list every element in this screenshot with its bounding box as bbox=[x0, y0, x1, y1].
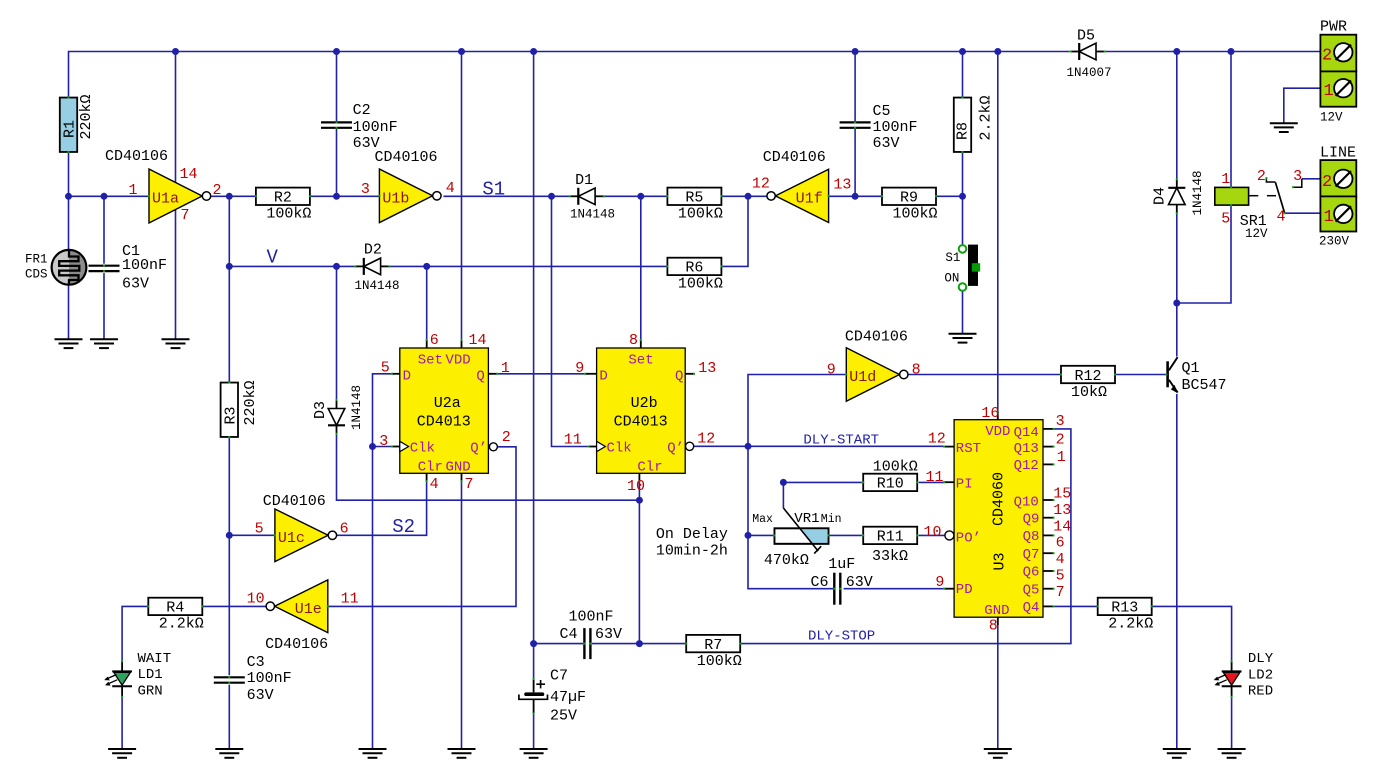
svg-text:9: 9 bbox=[935, 574, 944, 591]
ground C1 bbox=[90, 338, 118, 340]
relay SR1 coil bbox=[1215, 187, 1249, 205]
svg-text:VDD: VDD bbox=[985, 424, 1010, 440]
wire U1f output to R9 bbox=[829, 195, 883, 197]
wire LD1 cathode to ground bbox=[121, 697, 123, 749]
svg-text:GRN: GRN bbox=[138, 684, 163, 700]
svg-text:12V: 12V bbox=[1320, 111, 1343, 125]
wire C7 bottom to ground bbox=[533, 714, 535, 750]
wire D4 bottom to Q1 collector bbox=[1176, 213, 1178, 356]
svg-text:8: 8 bbox=[989, 618, 998, 635]
svg-text:U2a: U2a bbox=[434, 395, 461, 412]
wire U3 VDD pin16 vertical from rail bbox=[997, 52, 999, 412]
wire U2a Clk node to ground bbox=[372, 447, 374, 750]
svg-text:Q’: Q’ bbox=[470, 441, 487, 457]
ground PWR pin1 bbox=[1270, 122, 1298, 124]
svg-text:1: 1 bbox=[1324, 208, 1334, 227]
svg-text:11: 11 bbox=[341, 591, 359, 608]
wire U1d output to R12 bbox=[908, 374, 1062, 376]
svg-text:R7: R7 bbox=[704, 637, 722, 654]
svg-text:8: 8 bbox=[629, 332, 638, 349]
svg-text:100nF: 100nF bbox=[873, 119, 918, 136]
svg-text:1: 1 bbox=[129, 182, 138, 199]
wire R11 to U3 PO' bbox=[919, 534, 945, 536]
wire R12 to Q1 base bbox=[1116, 374, 1167, 376]
wire C2 bottom to U1b input node bbox=[336, 128, 338, 197]
ground LD1 bbox=[108, 748, 136, 750]
svg-text:7: 7 bbox=[465, 476, 474, 493]
wire U2b Set feeder from net S1 down bbox=[640, 196, 642, 340]
wire U1e output to R4 bbox=[202, 605, 266, 607]
svg-text:1N4148: 1N4148 bbox=[570, 208, 615, 222]
junction dot U1c input bbox=[226, 532, 233, 539]
svg-text:R8: R8 bbox=[955, 122, 972, 140]
wire net DLY-STOP: C4 left bbox=[534, 643, 583, 645]
resistor R12 10k bbox=[1061, 366, 1115, 383]
wire R4 to LD1 bbox=[122, 606, 148, 661]
svg-text:C7: C7 bbox=[550, 668, 568, 685]
svg-text:63V: 63V bbox=[122, 276, 149, 293]
svg-text:1: 1 bbox=[1324, 82, 1334, 101]
wire VR1 left terminal bbox=[748, 534, 774, 536]
relay SR1 contact bbox=[1266, 178, 1275, 182]
resistor R11 33k bbox=[863, 527, 917, 544]
wire U1a input row bbox=[69, 195, 150, 197]
wire U2b Clk feeder from net S1 down bbox=[552, 196, 589, 446]
junction dot VR1 wiper / R10 bbox=[780, 479, 787, 486]
pushbutton S1 ON bbox=[959, 245, 967, 253]
svg-text:12: 12 bbox=[752, 176, 770, 193]
wire U2a Set pin6 from V row bbox=[426, 266, 428, 340]
wire C4/C7 feeder vertical from rail bbox=[533, 52, 535, 644]
svg-text:63V: 63V bbox=[595, 626, 622, 643]
svg-text:Set: Set bbox=[418, 352, 443, 368]
counter U3 CD4060 bbox=[954, 420, 1043, 618]
resistor R6 100k bbox=[667, 258, 721, 275]
inverter U1a CD40106 bbox=[149, 169, 202, 223]
svg-text:D4: D4 bbox=[1152, 187, 1169, 205]
svg-text:D: D bbox=[403, 368, 411, 384]
svg-text:Q12: Q12 bbox=[1014, 458, 1039, 474]
svg-text:U1e: U1e bbox=[295, 601, 322, 618]
svg-text:3: 3 bbox=[379, 433, 388, 450]
svg-text:4: 4 bbox=[1056, 551, 1065, 568]
svg-text:5: 5 bbox=[1056, 568, 1065, 585]
svg-text:DLY-START: DLY-START bbox=[803, 433, 879, 449]
svg-text:R1: R1 bbox=[62, 120, 79, 138]
junction dot U2b Clr bbox=[636, 497, 643, 504]
svg-text:11: 11 bbox=[564, 432, 582, 449]
svg-text:12: 12 bbox=[697, 431, 715, 448]
svg-text:Set: Set bbox=[628, 352, 653, 368]
svg-text:Clk: Clk bbox=[410, 441, 435, 457]
svg-text:12: 12 bbox=[928, 431, 946, 448]
svg-text:11: 11 bbox=[926, 469, 944, 486]
LED LD1 green WAIT bbox=[121, 661, 123, 671]
svg-text:4: 4 bbox=[1277, 209, 1286, 226]
wire U1a output to R2 bbox=[211, 195, 257, 197]
svg-text:63V: 63V bbox=[873, 135, 900, 152]
svg-text:S1: S1 bbox=[482, 179, 505, 201]
svg-text:15: 15 bbox=[1053, 486, 1071, 503]
svg-text:220kΩ: 220kΩ bbox=[78, 94, 95, 139]
svg-text:25V: 25V bbox=[550, 708, 577, 725]
svg-text:RED: RED bbox=[1248, 684, 1273, 700]
resistor R5 100k bbox=[667, 188, 721, 205]
wire R3 bottom through U1c node to C3 bbox=[228, 436, 230, 675]
svg-text:Q10: Q10 bbox=[1014, 495, 1039, 511]
wire C1 top bbox=[103, 196, 105, 263]
svg-text:63V: 63V bbox=[846, 574, 873, 591]
ground Q1 emitter bbox=[1163, 748, 1191, 750]
svg-text:CD40106: CD40106 bbox=[263, 493, 326, 510]
svg-text:Q6: Q6 bbox=[1023, 565, 1040, 581]
svg-text:U1b: U1b bbox=[382, 190, 409, 207]
wire C5 vertical top bbox=[854, 52, 856, 123]
svg-text:V: V bbox=[267, 247, 279, 269]
wire VR1 right to R11 bbox=[829, 534, 862, 536]
LDR FR1 CDS photoresistor bbox=[52, 250, 87, 285]
wire relay coil bottom to collector node bbox=[1177, 205, 1231, 303]
svg-text:5: 5 bbox=[1221, 211, 1230, 228]
resistor R4 2.2k bbox=[148, 598, 202, 615]
svg-text:R10: R10 bbox=[877, 476, 904, 493]
svg-text:10: 10 bbox=[924, 524, 942, 541]
capacitor C7 47uF electrolytic bbox=[533, 679, 535, 692]
resistor R10 100k bbox=[863, 474, 917, 491]
capacitor C3 100nF bbox=[214, 676, 245, 678]
capacitor C5 100nF bbox=[840, 121, 871, 123]
diode D5 1N4007 bbox=[1071, 51, 1080, 53]
svg-text:6: 6 bbox=[340, 521, 349, 538]
svg-text:2.2kΩ: 2.2kΩ bbox=[1108, 616, 1153, 633]
svg-text:Q14: Q14 bbox=[1014, 425, 1039, 441]
wire +12V top rail right segment (after D5) bbox=[1106, 51, 1321, 53]
wire VR1/C6 feeder vertical bbox=[748, 446, 833, 588]
wire U1c input from R3 node bbox=[229, 534, 275, 536]
svg-text:1N4148: 1N4148 bbox=[355, 279, 400, 293]
wire R6 right up to U1f input node bbox=[722, 196, 748, 266]
svg-text:10: 10 bbox=[247, 591, 265, 608]
wire LINE pin2 from relay contact 3 bbox=[1302, 178, 1321, 180]
ground U3 pin8 bbox=[984, 748, 1012, 750]
svg-text:Q9: Q9 bbox=[1023, 512, 1040, 528]
svg-text:CD4060: CD4060 bbox=[991, 472, 1008, 526]
svg-text:DLY: DLY bbox=[1248, 651, 1274, 667]
ground S1 bbox=[949, 333, 977, 335]
svg-text:10: 10 bbox=[627, 478, 645, 495]
diode D1 1N4148 bbox=[570, 195, 579, 197]
wire U2a D-Clk tie bbox=[373, 374, 392, 447]
svg-text:WAIT: WAIT bbox=[138, 651, 172, 667]
svg-text:Q8: Q8 bbox=[1023, 529, 1040, 545]
svg-text:C2: C2 bbox=[353, 102, 371, 119]
wire C3 bottom to ground bbox=[228, 685, 230, 749]
svg-text:14: 14 bbox=[469, 332, 487, 349]
svg-text:S2: S2 bbox=[392, 516, 415, 538]
svg-text:100nF: 100nF bbox=[122, 257, 167, 274]
svg-text:33kΩ: 33kΩ bbox=[872, 548, 908, 565]
svg-text:D3: D3 bbox=[312, 401, 329, 419]
junction dots S1 row bbox=[65, 193, 72, 200]
svg-text:ON: ON bbox=[944, 272, 959, 286]
svg-text:10min-2h: 10min-2h bbox=[656, 543, 728, 560]
capacitor C1 100nF bbox=[89, 265, 120, 267]
svg-text:5: 5 bbox=[381, 360, 390, 377]
svg-text:230V: 230V bbox=[1319, 235, 1350, 249]
resistor R2 100k bbox=[256, 188, 310, 205]
svg-text:RST: RST bbox=[956, 441, 981, 457]
wire net DLY-START: U2b Q' to U3 RST bbox=[694, 445, 944, 447]
junction dot relay feed bbox=[1173, 300, 1180, 307]
svg-text:1N4007: 1N4007 bbox=[1067, 66, 1112, 80]
svg-text:U2b: U2b bbox=[631, 395, 658, 412]
svg-text:13: 13 bbox=[698, 360, 716, 377]
svg-text:LD1: LD1 bbox=[138, 667, 163, 683]
resistor R7 100k bbox=[686, 635, 740, 652]
svg-text:100kΩ: 100kΩ bbox=[678, 206, 723, 223]
svg-text:Q: Q bbox=[476, 368, 484, 384]
svg-text:470kΩ: 470kΩ bbox=[764, 552, 809, 569]
svg-text:DLY-STOP: DLY-STOP bbox=[808, 628, 875, 644]
svg-text:220kΩ: 220kΩ bbox=[242, 380, 259, 425]
wire D4 top from rail bbox=[1176, 52, 1178, 180]
svg-text:VR1: VR1 bbox=[794, 511, 819, 527]
wire U1a pin7 to ground bbox=[175, 210, 177, 339]
wire R2 to U1b input bbox=[309, 195, 379, 197]
svg-text:CD40106: CD40106 bbox=[105, 148, 168, 165]
svg-text:100kΩ: 100kΩ bbox=[892, 206, 937, 223]
svg-text:PI: PI bbox=[956, 477, 973, 493]
wire R10 right to U3 PI bbox=[919, 481, 945, 483]
wire VR1 wiper stub bbox=[782, 482, 784, 508]
svg-text:1uF: 1uF bbox=[828, 556, 855, 573]
svg-text:Min: Min bbox=[821, 513, 842, 526]
resistor R3 220k bbox=[221, 383, 238, 437]
wire FR1 bottom to ground bbox=[68, 285, 70, 340]
svg-text:2.2kΩ: 2.2kΩ bbox=[978, 95, 995, 140]
inverter U1c CD40106 bbox=[275, 509, 328, 562]
svg-text:Q13: Q13 bbox=[1014, 441, 1039, 457]
svg-text:D1: D1 bbox=[575, 172, 593, 189]
svg-text:4: 4 bbox=[446, 180, 455, 197]
LED LD2 red DLY bbox=[1231, 661, 1233, 671]
inverter U1b CD40106 bbox=[379, 169, 432, 223]
svg-text:CD40106: CD40106 bbox=[845, 329, 908, 346]
wire net S2: U1c output to U2a Clr bbox=[336, 481, 426, 535]
svg-text:U1a: U1a bbox=[152, 191, 179, 208]
resistor R13 2.2k bbox=[1098, 598, 1152, 615]
svg-text:14: 14 bbox=[1053, 519, 1071, 536]
wire D3 bottom to U2b Clr row bbox=[337, 434, 640, 500]
svg-text:Q: Q bbox=[675, 368, 683, 384]
svg-text:C6: C6 bbox=[810, 574, 828, 591]
svg-text:D2: D2 bbox=[364, 241, 382, 258]
wire D3 top from V row bbox=[336, 266, 338, 399]
svg-text:Clk: Clk bbox=[607, 441, 632, 457]
svg-text:BC547: BC547 bbox=[1182, 377, 1227, 394]
wire relay coil top to rail bbox=[1230, 52, 1232, 188]
wire R8 bottom to S1 switch bbox=[962, 152, 964, 245]
svg-text:LD2: LD2 bbox=[1248, 668, 1273, 684]
junction dot U2a Clk bbox=[369, 443, 376, 450]
svg-text:13: 13 bbox=[833, 177, 851, 194]
svg-text:CD4013: CD4013 bbox=[614, 414, 668, 431]
svg-text:100kΩ: 100kΩ bbox=[678, 276, 723, 293]
wire U1a pin14 to rail bbox=[175, 52, 177, 184]
svg-text:R11: R11 bbox=[877, 529, 904, 546]
svg-text:1: 1 bbox=[501, 360, 510, 377]
wire U2a GND pin7 to ground bbox=[461, 481, 463, 749]
wire C2 vertical top bbox=[336, 52, 338, 123]
svg-text:100kΩ: 100kΩ bbox=[266, 206, 311, 223]
capacitor C6 1uF bbox=[833, 573, 835, 605]
svg-text:D: D bbox=[599, 368, 607, 384]
wire U2a Q to U2b D bbox=[497, 373, 585, 375]
svg-text:3: 3 bbox=[1293, 168, 1302, 185]
svg-text:Q5: Q5 bbox=[1023, 583, 1040, 599]
wire PWR pin1 to ground bbox=[1284, 88, 1321, 123]
svg-text:2: 2 bbox=[1322, 46, 1332, 65]
svg-text:9: 9 bbox=[827, 361, 836, 378]
svg-text:100nF: 100nF bbox=[568, 609, 613, 626]
wire net DLY-STOP: R7 to U3 Q14 bbox=[741, 429, 1071, 644]
svg-text:LINE: LINE bbox=[1320, 145, 1356, 162]
wire net V row bbox=[229, 265, 355, 267]
diode D2 1N4148 bbox=[355, 265, 364, 267]
svg-text:PWR: PWR bbox=[1320, 19, 1347, 36]
svg-text:GND: GND bbox=[446, 459, 471, 475]
svg-text:CD40106: CD40106 bbox=[375, 149, 438, 166]
junction dot DLY-START / U1d input bbox=[745, 443, 752, 450]
svg-text:1: 1 bbox=[1221, 171, 1230, 188]
wire R10 left to VR1 wiper node bbox=[783, 481, 862, 483]
svg-text:Q’: Q’ bbox=[667, 441, 684, 457]
resistor R8 2.2k bbox=[954, 98, 971, 152]
svg-text:7: 7 bbox=[181, 207, 190, 224]
wire U1d input from DLY-START bbox=[748, 375, 846, 447]
potentiometer VR1 470k bbox=[774, 528, 828, 544]
svg-text:R12: R12 bbox=[1074, 368, 1101, 385]
svg-text:3: 3 bbox=[1056, 413, 1065, 430]
capacitor C4 100nF bbox=[583, 628, 585, 659]
junction dot DLY-STOP row bbox=[530, 640, 537, 647]
svg-text:U1f: U1f bbox=[796, 191, 823, 208]
flip-flop U2b CD4013 bbox=[597, 348, 686, 473]
wire LD2 cathode to ground bbox=[1231, 697, 1233, 749]
svg-text:5: 5 bbox=[255, 521, 264, 538]
svg-text:Max: Max bbox=[752, 513, 773, 526]
svg-text:8: 8 bbox=[912, 361, 921, 378]
svg-text:R2: R2 bbox=[274, 190, 292, 207]
svg-text:6: 6 bbox=[430, 332, 439, 349]
ground C3 bbox=[215, 748, 243, 750]
inverter U1f CD40106 bbox=[775, 169, 828, 222]
ground U1a pin7 bbox=[162, 338, 190, 340]
svg-text:14: 14 bbox=[180, 166, 198, 183]
svg-text:U1d: U1d bbox=[849, 369, 876, 386]
svg-text:9: 9 bbox=[575, 360, 584, 377]
inverter U1e CD40106 bbox=[275, 580, 328, 633]
svg-text:R5: R5 bbox=[685, 190, 703, 207]
svg-text:PD: PD bbox=[956, 582, 973, 598]
diode D4 1N4148 bbox=[1176, 179, 1178, 188]
ground LD2 bbox=[1218, 748, 1246, 750]
svg-text:On Delay: On Delay bbox=[656, 526, 728, 543]
svg-text:13: 13 bbox=[1053, 502, 1071, 519]
svg-text:S1: S1 bbox=[945, 251, 960, 265]
wire LINE pin1 from relay contact 4 bbox=[1285, 212, 1321, 214]
wire R9 to R8 node bbox=[936, 195, 963, 197]
svg-text:100kΩ: 100kΩ bbox=[873, 458, 918, 475]
wire U2a Q' to U1e input bbox=[328, 447, 516, 607]
svg-text:1N4148: 1N4148 bbox=[1191, 170, 1205, 215]
wire +12V top rail left segment bbox=[69, 52, 1070, 98]
resistor R1 220k (LDR divider) bbox=[60, 98, 77, 152]
diode D3 1N4148 bbox=[336, 400, 338, 409]
wire S1 switch to ground bbox=[962, 291, 964, 334]
terminal block LINE bbox=[1320, 160, 1356, 196]
svg-text:U1c: U1c bbox=[278, 530, 305, 547]
terminal block PWR bbox=[1320, 35, 1356, 72]
svg-text:CD40106: CD40106 bbox=[265, 636, 328, 653]
svg-text:R9: R9 bbox=[900, 190, 918, 207]
svg-text:2.2kΩ: 2.2kΩ bbox=[159, 616, 204, 633]
resistor R9 100k bbox=[882, 188, 936, 205]
wire net S1: R5 to U1f input bbox=[722, 195, 767, 197]
svg-text:63V: 63V bbox=[247, 687, 274, 704]
transistor Q1 BC547 bbox=[1166, 361, 1169, 387]
svg-text:2: 2 bbox=[213, 182, 222, 199]
svg-text:100kΩ: 100kΩ bbox=[697, 653, 742, 670]
wire net S1: D1 to R5 bbox=[604, 195, 667, 197]
svg-text:7: 7 bbox=[1056, 584, 1065, 601]
wire C6 right to U3 PD bbox=[844, 588, 945, 590]
svg-text:FR1: FR1 bbox=[25, 253, 48, 267]
svg-text:U3: U3 bbox=[992, 552, 1009, 570]
svg-text:Q7: Q7 bbox=[1023, 547, 1040, 563]
svg-text:R3: R3 bbox=[223, 406, 240, 424]
wire net DLY-STOP: C4 right to R7 bbox=[592, 643, 686, 645]
svg-text:6: 6 bbox=[1056, 535, 1065, 552]
ground FR1 bbox=[55, 338, 83, 340]
wire U2b Clr stub down / to DLY-STOP row bbox=[638, 481, 640, 643]
svg-text:12V: 12V bbox=[1245, 227, 1268, 241]
svg-text:PO’: PO’ bbox=[956, 531, 981, 547]
svg-text:100nF: 100nF bbox=[353, 119, 398, 136]
svg-text:CDS: CDS bbox=[25, 268, 48, 282]
wire rail to R8 top bbox=[962, 52, 964, 98]
wire R1 bottom to FR1 bbox=[68, 152, 70, 250]
svg-text:R6: R6 bbox=[685, 260, 703, 277]
svg-text:16: 16 bbox=[981, 405, 999, 422]
junction dot VR1 left bbox=[745, 532, 752, 539]
svg-text:CD4013: CD4013 bbox=[417, 414, 471, 431]
inverter U1d CD40106 bbox=[846, 348, 899, 401]
ground C7 bbox=[520, 748, 548, 750]
svg-text:10kΩ: 10kΩ bbox=[1071, 384, 1107, 401]
svg-text:CD40106: CD40106 bbox=[763, 149, 826, 166]
svg-text:Clr: Clr bbox=[418, 459, 443, 475]
ground U2a pin7 bbox=[448, 748, 476, 750]
junction dots top rail bbox=[172, 48, 179, 55]
svg-text:R13: R13 bbox=[1111, 600, 1138, 617]
wire U3 GND pin8 to ground bbox=[997, 617, 999, 749]
svg-text:Clr: Clr bbox=[637, 459, 662, 475]
svg-text:Q4: Q4 bbox=[1023, 600, 1040, 616]
svg-text:47µF: 47µF bbox=[550, 689, 586, 706]
svg-text:D5: D5 bbox=[1077, 28, 1095, 45]
svg-text:2: 2 bbox=[1257, 168, 1266, 185]
